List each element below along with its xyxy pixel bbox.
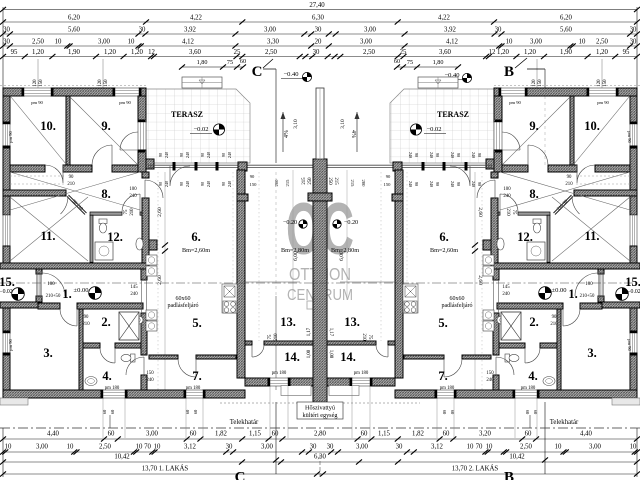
svg-text:13,70 2. LAKÁS: 13,70 2. LAKÁS bbox=[452, 465, 499, 473]
svg-text:2,50: 2,50 bbox=[363, 49, 375, 56]
svg-text:1,20: 1,20 bbox=[497, 49, 509, 56]
svg-text:90: 90 bbox=[414, 182, 419, 186]
svg-text:75: 75 bbox=[268, 334, 273, 339]
svg-text:10: 10 bbox=[154, 444, 161, 451]
svg-text:3,10: 3,10 bbox=[293, 119, 299, 129]
svg-text:210: 210 bbox=[82, 322, 90, 327]
svg-text:15.: 15. bbox=[0, 275, 15, 289]
svg-text:11.: 11. bbox=[585, 229, 600, 243]
svg-text:4%: 4% bbox=[350, 130, 356, 138]
svg-text:3,60: 3,60 bbox=[189, 49, 201, 56]
svg-text:pm 180: pm 180 bbox=[440, 386, 455, 391]
svg-text:10,42: 10,42 bbox=[114, 454, 130, 461]
svg-text:1.: 1. bbox=[62, 287, 71, 301]
svg-text:30: 30 bbox=[495, 27, 502, 34]
svg-text:3.: 3. bbox=[587, 346, 596, 360]
svg-text:90: 90 bbox=[567, 175, 572, 180]
svg-text:60: 60 bbox=[525, 431, 532, 438]
svg-text:6,00: 6,00 bbox=[339, 251, 345, 261]
svg-text:240: 240 bbox=[206, 152, 211, 158]
svg-text:4,40: 4,40 bbox=[580, 431, 592, 438]
svg-text:pm 90: pm 90 bbox=[627, 339, 632, 351]
svg-text:215: 215 bbox=[350, 180, 355, 188]
svg-text:3,00: 3,00 bbox=[530, 39, 542, 46]
svg-text:60: 60 bbox=[450, 410, 455, 415]
svg-text:12: 12 bbox=[148, 49, 155, 56]
svg-text:2.: 2. bbox=[101, 315, 110, 329]
svg-text:60: 60 bbox=[185, 409, 190, 414]
svg-text:10: 10 bbox=[630, 444, 637, 451]
svg-text:240: 240 bbox=[503, 194, 511, 199]
svg-text:240: 240 bbox=[429, 181, 434, 187]
svg-text:3,00: 3,00 bbox=[98, 39, 110, 46]
svg-text:4.: 4. bbox=[102, 369, 111, 383]
svg-text:90: 90 bbox=[221, 153, 226, 157]
svg-text:60: 60 bbox=[533, 410, 538, 415]
svg-text:90: 90 bbox=[456, 153, 461, 157]
svg-text:3,00: 3,00 bbox=[261, 444, 273, 451]
svg-text:pm 180: pm 180 bbox=[521, 386, 536, 391]
svg-text:3,92: 3,92 bbox=[444, 27, 456, 34]
svg-text:1,20: 1,20 bbox=[524, 49, 536, 56]
svg-text:1,20: 1,20 bbox=[131, 49, 143, 56]
svg-text:3,30: 3,30 bbox=[267, 39, 279, 46]
svg-text:25: 25 bbox=[400, 49, 407, 56]
svg-text:210: 210 bbox=[274, 333, 279, 341]
svg-text:30: 30 bbox=[315, 27, 322, 34]
svg-text:150: 150 bbox=[250, 182, 258, 187]
svg-text:90: 90 bbox=[200, 182, 205, 186]
svg-text:1,20: 1,20 bbox=[32, 49, 44, 56]
svg-text:1,82: 1,82 bbox=[412, 431, 424, 438]
svg-text:90: 90 bbox=[179, 153, 184, 157]
svg-text:7.: 7. bbox=[438, 369, 447, 383]
svg-text:pm 90: pm 90 bbox=[8, 130, 13, 142]
svg-text:60x60: 60x60 bbox=[450, 296, 465, 302]
svg-text:60: 60 bbox=[193, 409, 198, 414]
svg-text:60: 60 bbox=[102, 409, 107, 414]
svg-text:Bm=2,60m: Bm=2,60m bbox=[182, 247, 210, 254]
svg-text:2,80: 2,80 bbox=[314, 431, 326, 438]
svg-text:−0.02: −0.02 bbox=[426, 126, 441, 133]
svg-text:5,60: 5,60 bbox=[68, 27, 80, 34]
svg-text:pm 180: pm 180 bbox=[272, 371, 287, 376]
svg-text:1,15: 1,15 bbox=[378, 431, 390, 438]
svg-text:Bm=2,80m: Bm=2,80m bbox=[331, 247, 359, 254]
svg-text:215: 215 bbox=[333, 177, 338, 185]
svg-text:3,12: 3,12 bbox=[431, 444, 443, 451]
svg-text:8.: 8. bbox=[101, 187, 110, 201]
svg-text:3,60: 3,60 bbox=[439, 49, 451, 56]
svg-text:215: 215 bbox=[285, 179, 290, 187]
svg-text:2.: 2. bbox=[529, 315, 538, 329]
svg-text:10: 10 bbox=[5, 444, 12, 451]
svg-text:5,60: 5,60 bbox=[560, 27, 572, 34]
svg-text:90: 90 bbox=[69, 175, 74, 180]
svg-text:90: 90 bbox=[414, 153, 419, 157]
svg-text:−0.02: −0.02 bbox=[627, 289, 640, 295]
svg-text:90: 90 bbox=[477, 153, 482, 157]
svg-text:30: 30 bbox=[3, 39, 10, 46]
svg-text:12: 12 bbox=[489, 49, 496, 56]
svg-text:200: 200 bbox=[274, 179, 279, 187]
svg-text:75: 75 bbox=[511, 210, 516, 215]
svg-text:2,50: 2,50 bbox=[32, 39, 44, 46]
svg-text:2,50: 2,50 bbox=[265, 49, 277, 56]
svg-text:20: 20 bbox=[315, 39, 322, 46]
svg-text:150: 150 bbox=[384, 182, 392, 187]
svg-text:100: 100 bbox=[585, 282, 593, 287]
svg-text:10: 10 bbox=[486, 444, 493, 451]
svg-text:10: 10 bbox=[506, 39, 513, 46]
svg-text:pm 180: pm 180 bbox=[354, 371, 369, 376]
svg-text:60: 60 bbox=[190, 431, 197, 438]
svg-text:3,00: 3,00 bbox=[146, 431, 158, 438]
svg-text:145: 145 bbox=[502, 285, 510, 290]
svg-text:100: 100 bbox=[129, 187, 137, 192]
svg-text:145: 145 bbox=[130, 285, 138, 290]
svg-text:210+50: 210+50 bbox=[46, 294, 61, 299]
svg-text:60: 60 bbox=[442, 410, 447, 415]
svg-text:150: 150 bbox=[486, 371, 494, 376]
svg-text:90: 90 bbox=[200, 153, 205, 157]
svg-text:C: C bbox=[235, 470, 246, 480]
svg-text:90: 90 bbox=[250, 174, 255, 179]
svg-text:30: 30 bbox=[226, 444, 233, 451]
svg-text:240: 240 bbox=[450, 152, 455, 158]
svg-text:6.: 6. bbox=[439, 230, 448, 244]
svg-text:60x60: 60x60 bbox=[176, 296, 191, 302]
svg-text:10: 10 bbox=[67, 444, 74, 451]
svg-text:−0.02: −0.02 bbox=[193, 126, 208, 133]
svg-text:240: 240 bbox=[164, 181, 169, 187]
svg-text:10: 10 bbox=[467, 444, 474, 451]
svg-text:200: 200 bbox=[361, 180, 366, 188]
svg-text:75: 75 bbox=[124, 209, 129, 214]
svg-text:−0.40: −0.40 bbox=[283, 71, 298, 78]
svg-text:9.: 9. bbox=[101, 119, 110, 133]
svg-text:−0.20: −0.20 bbox=[344, 219, 358, 226]
svg-text:60: 60 bbox=[525, 410, 530, 415]
svg-text:5.: 5. bbox=[192, 316, 201, 330]
svg-text:90: 90 bbox=[179, 182, 184, 186]
svg-text:90: 90 bbox=[386, 174, 391, 179]
svg-text:30: 30 bbox=[313, 49, 320, 56]
svg-text:10,42: 10,42 bbox=[509, 454, 525, 461]
svg-text:240: 240 bbox=[450, 181, 455, 187]
svg-text:Bm=2,60m: Bm=2,60m bbox=[430, 247, 458, 254]
svg-text:14.: 14. bbox=[284, 350, 300, 364]
svg-text:75: 75 bbox=[367, 335, 372, 340]
svg-text:240: 240 bbox=[185, 152, 190, 158]
svg-text:210: 210 bbox=[565, 182, 573, 187]
svg-text:240: 240 bbox=[146, 378, 154, 383]
svg-text:210: 210 bbox=[130, 208, 135, 216]
svg-text:6.: 6. bbox=[191, 230, 200, 244]
svg-text:3,20: 3,20 bbox=[479, 431, 491, 438]
svg-text:240: 240 bbox=[129, 194, 137, 199]
svg-text:7.: 7. bbox=[192, 369, 201, 383]
svg-text:2,50: 2,50 bbox=[99, 444, 111, 451]
svg-text:13.: 13. bbox=[344, 315, 360, 329]
svg-text:10: 10 bbox=[579, 39, 586, 46]
svg-text:70: 70 bbox=[144, 444, 151, 451]
svg-text:3.: 3. bbox=[43, 346, 52, 360]
svg-text:1,00: 1,00 bbox=[328, 350, 333, 359]
svg-text:10.: 10. bbox=[40, 119, 56, 133]
svg-text:90: 90 bbox=[435, 153, 440, 157]
svg-text:14.: 14. bbox=[340, 350, 356, 364]
svg-text:10: 10 bbox=[136, 444, 143, 451]
svg-text:5.: 5. bbox=[438, 316, 447, 330]
svg-text:240: 240 bbox=[185, 181, 190, 187]
svg-text:240: 240 bbox=[471, 152, 476, 158]
svg-text:−0.20: −0.20 bbox=[283, 219, 297, 226]
svg-text:6,30: 6,30 bbox=[312, 15, 324, 22]
svg-text:90: 90 bbox=[158, 153, 163, 157]
svg-text:3,00: 3,00 bbox=[356, 444, 368, 451]
svg-text:Telekhatár: Telekhatár bbox=[230, 419, 259, 426]
svg-text:3,00: 3,00 bbox=[589, 444, 601, 451]
svg-text:240: 240 bbox=[471, 181, 476, 187]
svg-text:11.: 11. bbox=[41, 229, 56, 243]
svg-text:150: 150 bbox=[146, 371, 154, 376]
svg-text:240: 240 bbox=[227, 181, 232, 187]
svg-text:240: 240 bbox=[227, 152, 232, 158]
svg-text:240: 240 bbox=[164, 152, 169, 158]
svg-text:4%: 4% bbox=[284, 130, 290, 138]
svg-text:±0.00: ±0.00 bbox=[74, 287, 89, 294]
svg-text:1,17: 1,17 bbox=[328, 328, 333, 337]
svg-text:95: 95 bbox=[11, 49, 18, 56]
svg-text:240: 240 bbox=[408, 181, 413, 187]
svg-text:30: 30 bbox=[327, 444, 334, 451]
svg-text:240: 240 bbox=[429, 152, 434, 158]
svg-text:Telekhatár: Telekhatár bbox=[550, 419, 579, 426]
svg-text:1,90: 1,90 bbox=[560, 49, 572, 56]
svg-text:4,12: 4,12 bbox=[182, 39, 194, 46]
svg-text:Hőszivattyú: Hőszivattyú bbox=[305, 405, 335, 412]
svg-text:90: 90 bbox=[456, 182, 461, 186]
svg-text:13,70 1. LAKÁS: 13,70 1. LAKÁS bbox=[142, 465, 189, 473]
svg-text:240: 240 bbox=[130, 292, 138, 297]
svg-text:1.: 1. bbox=[568, 287, 577, 301]
svg-text:60: 60 bbox=[272, 431, 279, 438]
svg-text:6,20: 6,20 bbox=[68, 15, 80, 22]
svg-text:100: 100 bbox=[503, 187, 511, 192]
svg-text:3,12: 3,12 bbox=[184, 444, 196, 451]
svg-text:250: 250 bbox=[308, 177, 313, 185]
svg-text:13.: 13. bbox=[280, 315, 296, 329]
svg-text:TERASZ: TERASZ bbox=[437, 110, 469, 119]
svg-text:70: 70 bbox=[476, 444, 483, 451]
svg-text:90: 90 bbox=[84, 315, 89, 320]
svg-text:240: 240 bbox=[408, 152, 413, 158]
svg-text:C: C bbox=[252, 64, 263, 80]
svg-text:30: 30 bbox=[310, 444, 317, 451]
svg-text:27,40: 27,40 bbox=[309, 2, 325, 9]
svg-text:±0.00: ±0.00 bbox=[552, 287, 567, 294]
svg-text:6,00: 6,00 bbox=[293, 251, 299, 261]
svg-text:60: 60 bbox=[240, 58, 246, 65]
svg-text:4,12: 4,12 bbox=[446, 39, 458, 46]
svg-text:1,20: 1,20 bbox=[596, 49, 608, 56]
svg-text:30: 30 bbox=[139, 27, 146, 34]
svg-text:250: 250 bbox=[327, 177, 332, 185]
svg-text:240: 240 bbox=[486, 378, 494, 383]
svg-text:210: 210 bbox=[550, 322, 558, 327]
svg-text:8.: 8. bbox=[529, 187, 538, 201]
svg-text:pm 90: pm 90 bbox=[8, 338, 13, 350]
svg-text:75: 75 bbox=[407, 59, 413, 66]
svg-text:pm 90: pm 90 bbox=[31, 100, 43, 105]
svg-text:60: 60 bbox=[361, 431, 368, 438]
svg-text:30: 30 bbox=[3, 27, 10, 34]
svg-text:10: 10 bbox=[555, 444, 562, 451]
svg-text:TERASZ: TERASZ bbox=[171, 110, 203, 119]
svg-text:pm 90: pm 90 bbox=[627, 131, 632, 143]
svg-text:padlásfeljáró: padlásfeljáró bbox=[168, 302, 199, 309]
svg-text:B: B bbox=[504, 470, 514, 480]
svg-text:60: 60 bbox=[394, 58, 400, 65]
svg-text:padlásfeljáró: padlásfeljáró bbox=[442, 302, 473, 309]
svg-text:10: 10 bbox=[55, 39, 62, 46]
svg-text:10: 10 bbox=[128, 39, 135, 46]
svg-text:3,00: 3,00 bbox=[264, 27, 276, 34]
svg-text:3,00: 3,00 bbox=[360, 39, 372, 46]
svg-text:1,00: 1,00 bbox=[307, 349, 312, 358]
svg-text:240: 240 bbox=[502, 292, 510, 297]
svg-text:pm 90: pm 90 bbox=[119, 100, 131, 105]
svg-text:240: 240 bbox=[206, 181, 211, 187]
svg-text:90: 90 bbox=[221, 182, 226, 186]
svg-text:−0.02: −0.02 bbox=[0, 289, 13, 295]
svg-text:90: 90 bbox=[552, 315, 557, 320]
svg-text:210: 210 bbox=[505, 208, 510, 216]
svg-text:1,15: 1,15 bbox=[249, 431, 261, 438]
svg-text:75: 75 bbox=[227, 59, 233, 66]
svg-text:4.: 4. bbox=[528, 369, 537, 383]
svg-text:pm 180: pm 180 bbox=[105, 386, 120, 391]
svg-text:B: B bbox=[504, 64, 514, 80]
svg-text:3,00: 3,00 bbox=[36, 444, 48, 451]
svg-text:210: 210 bbox=[67, 182, 75, 187]
svg-text:6,20: 6,20 bbox=[560, 15, 572, 22]
svg-text:25: 25 bbox=[234, 49, 241, 56]
svg-text:215: 215 bbox=[302, 177, 307, 185]
svg-text:210: 210 bbox=[361, 333, 366, 341]
svg-text:4,40: 4,40 bbox=[47, 431, 59, 438]
svg-text:95: 95 bbox=[623, 49, 630, 56]
svg-text:pm 180: pm 180 bbox=[186, 386, 201, 391]
svg-text:60: 60 bbox=[108, 431, 115, 438]
svg-text:1,80: 1,80 bbox=[433, 59, 444, 66]
svg-text:90: 90 bbox=[435, 182, 440, 186]
svg-text:pm 90: pm 90 bbox=[509, 100, 521, 105]
svg-text:10.: 10. bbox=[584, 119, 600, 133]
svg-text:1,90: 1,90 bbox=[68, 49, 80, 56]
svg-text:15.: 15. bbox=[625, 275, 640, 289]
svg-text:1,82: 1,82 bbox=[215, 431, 227, 438]
svg-text:2,50: 2,50 bbox=[520, 444, 532, 451]
svg-text:100: 100 bbox=[47, 282, 55, 287]
svg-text:3,10: 3,10 bbox=[340, 119, 346, 129]
svg-text:90: 90 bbox=[477, 182, 482, 186]
svg-text:30: 30 bbox=[396, 444, 403, 451]
svg-text:30: 30 bbox=[630, 39, 637, 46]
svg-text:1,80: 1,80 bbox=[197, 59, 208, 66]
svg-text:12.: 12. bbox=[107, 230, 123, 244]
svg-text:pm 90: pm 90 bbox=[597, 100, 609, 105]
svg-text:kültéri egység: kültéri egység bbox=[303, 412, 338, 419]
svg-text:4,22: 4,22 bbox=[438, 15, 450, 22]
svg-text:9.: 9. bbox=[529, 119, 538, 133]
svg-text:90: 90 bbox=[158, 182, 163, 186]
svg-text:3,00: 3,00 bbox=[364, 27, 376, 34]
svg-text:1,20: 1,20 bbox=[104, 49, 116, 56]
svg-text:1,17: 1,17 bbox=[307, 327, 312, 336]
svg-text:60: 60 bbox=[443, 431, 450, 438]
svg-text:12.: 12. bbox=[517, 230, 533, 244]
svg-text:4,22: 4,22 bbox=[190, 15, 202, 22]
svg-text:210+50: 210+50 bbox=[580, 294, 595, 299]
svg-text:30: 30 bbox=[630, 27, 637, 34]
svg-text:60: 60 bbox=[110, 409, 115, 414]
svg-text:2,50: 2,50 bbox=[596, 39, 608, 46]
svg-text:3,92: 3,92 bbox=[184, 27, 196, 34]
